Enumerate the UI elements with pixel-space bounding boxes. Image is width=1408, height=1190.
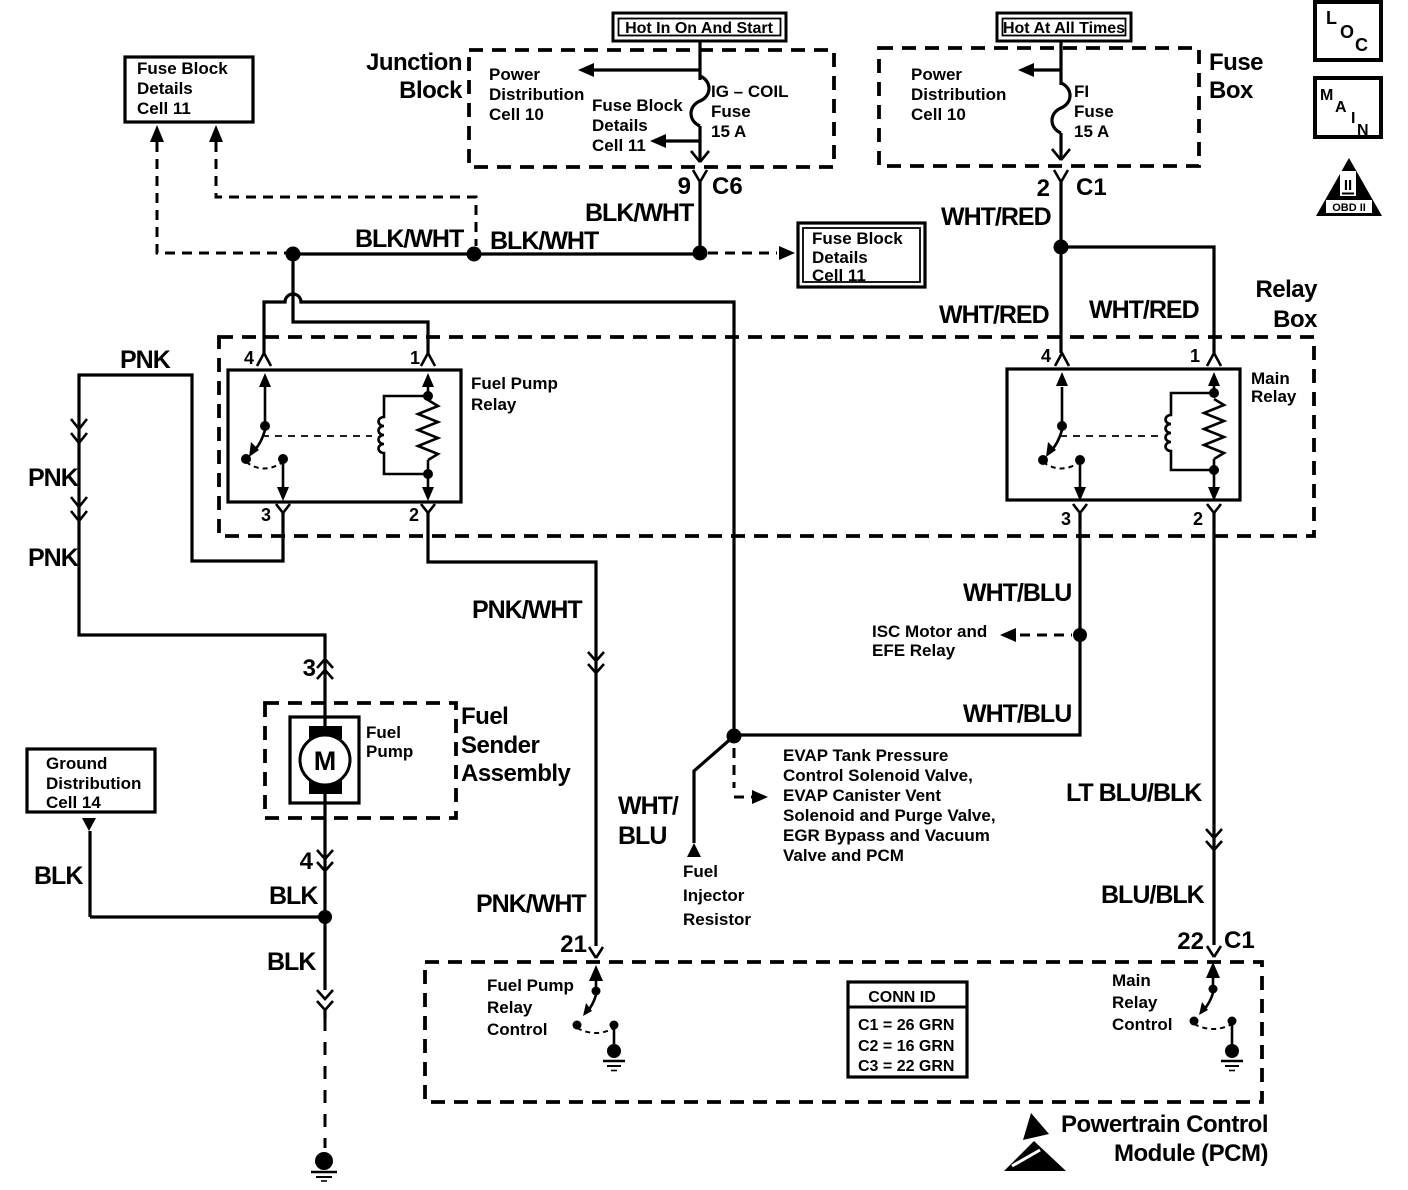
svg-text:Resistor: Resistor <box>683 910 751 929</box>
svg-text:BLK/WHT: BLK/WHT <box>585 199 694 227</box>
svg-text:WHT/RED: WHT/RED <box>939 301 1049 329</box>
svg-text:Relay: Relay <box>1255 276 1318 303</box>
svg-text:Fuel Pump: Fuel Pump <box>471 374 558 393</box>
svg-text:Pump: Pump <box>366 742 413 761</box>
svg-text:Relay: Relay <box>1112 993 1158 1012</box>
svg-text:15 A: 15 A <box>711 122 746 141</box>
svg-text:OBD II: OBD II <box>1332 202 1366 214</box>
svg-text:9: 9 <box>678 173 691 200</box>
svg-text:1: 1 <box>1190 346 1200 366</box>
svg-text:Cell 10: Cell 10 <box>911 105 966 124</box>
svg-text:Block: Block <box>399 77 463 104</box>
svg-text:2: 2 <box>1037 175 1050 202</box>
svg-text:4: 4 <box>300 848 314 875</box>
svg-text:EVAP Canister Vent: EVAP Canister Vent <box>783 786 941 805</box>
svg-text:3: 3 <box>303 655 316 682</box>
svg-text:Fuse: Fuse <box>1209 49 1263 76</box>
svg-text:BLU: BLU <box>618 822 666 850</box>
svg-text:EVAP Tank Pressure: EVAP Tank Pressure <box>783 746 948 765</box>
svg-text:Control: Control <box>487 1020 547 1039</box>
svg-text:C2 = 16 GRN: C2 = 16 GRN <box>858 1038 954 1055</box>
svg-text:C1: C1 <box>1076 174 1107 201</box>
svg-text:L: L <box>1326 8 1337 28</box>
svg-text:PNK: PNK <box>28 544 79 572</box>
svg-text:BLK/WHT: BLK/WHT <box>355 225 464 253</box>
svg-text:Distribution: Distribution <box>489 85 584 104</box>
svg-text:4: 4 <box>1041 346 1051 366</box>
svg-text:WHT/RED: WHT/RED <box>1089 296 1199 324</box>
svg-text:21: 21 <box>560 931 587 958</box>
svg-text:Ground: Ground <box>46 754 107 773</box>
svg-text:BLK: BLK <box>267 948 316 976</box>
svg-text:2: 2 <box>1193 509 1203 529</box>
svg-text:Assembly: Assembly <box>461 760 572 787</box>
svg-text:WHT/RED: WHT/RED <box>941 203 1051 231</box>
svg-text:Hot In On And Start: Hot In On And Start <box>625 20 774 37</box>
svg-text:LT BLU/BLK: LT BLU/BLK <box>1066 779 1202 807</box>
svg-text:Fuse Block: Fuse Block <box>592 96 683 115</box>
svg-text:Injector: Injector <box>683 886 745 905</box>
svg-text:O: O <box>1340 22 1354 42</box>
svg-text:Cell 11: Cell 11 <box>592 136 646 155</box>
svg-text:WHT/BLU: WHT/BLU <box>963 579 1071 607</box>
svg-text:Cell 11: Cell 11 <box>137 99 191 118</box>
svg-text:Fuse Block: Fuse Block <box>137 59 228 78</box>
svg-text:1: 1 <box>410 348 420 368</box>
svg-text:4: 4 <box>244 348 254 368</box>
svg-text:Main: Main <box>1251 369 1290 388</box>
svg-text:Distribution: Distribution <box>911 85 1006 104</box>
svg-text:C1: C1 <box>1224 927 1255 954</box>
svg-text:Fuse Block: Fuse Block <box>812 229 903 248</box>
svg-text:EGR Bypass and Vacuum: EGR Bypass and Vacuum <box>783 826 990 845</box>
svg-text:PNK/WHT: PNK/WHT <box>476 890 586 918</box>
svg-text:N: N <box>1357 122 1369 139</box>
svg-text:Fuel: Fuel <box>683 862 718 881</box>
svg-text:Power: Power <box>489 65 540 84</box>
svg-text:PNK/WHT: PNK/WHT <box>472 596 582 624</box>
svg-text:Cell 11: Cell 11 <box>812 266 866 285</box>
svg-text:C: C <box>1355 35 1368 55</box>
svg-text:Solenoid and Purge Valve,: Solenoid and Purge Valve, <box>783 806 996 825</box>
svg-text:Relay: Relay <box>1251 387 1297 406</box>
svg-text:BLK/WHT: BLK/WHT <box>490 227 599 255</box>
svg-text:PNK: PNK <box>28 464 79 492</box>
svg-text:IG – COIL: IG – COIL <box>711 82 788 101</box>
svg-text:Control: Control <box>1112 1015 1172 1034</box>
svg-text:Module (PCM): Module (PCM) <box>1114 1140 1268 1167</box>
svg-text:C1 = 26 GRN: C1 = 26 GRN <box>858 1017 954 1034</box>
svg-text:Details: Details <box>137 79 193 98</box>
svg-text:C3 = 22 GRN: C3 = 22 GRN <box>858 1058 954 1075</box>
svg-text:Fuse: Fuse <box>711 102 751 121</box>
svg-text:Valve and PCM: Valve and PCM <box>783 846 904 865</box>
svg-text:II: II <box>1344 177 1352 194</box>
svg-text:CONN ID: CONN ID <box>868 989 936 1006</box>
svg-text:Cell 10: Cell 10 <box>489 105 544 124</box>
svg-text:Box: Box <box>1273 306 1318 333</box>
svg-text:Hot At All Times: Hot At All Times <box>1003 20 1125 37</box>
svg-text:Powertrain Control: Powertrain Control <box>1061 1111 1268 1138</box>
svg-text:Main: Main <box>1112 971 1151 990</box>
svg-text:2: 2 <box>409 505 419 525</box>
svg-text:Details: Details <box>812 248 868 267</box>
svg-text:FI: FI <box>1074 82 1089 101</box>
svg-text:15 A: 15 A <box>1074 122 1109 141</box>
svg-text:PNK: PNK <box>120 346 171 374</box>
svg-text:22: 22 <box>1177 928 1204 955</box>
svg-text:3: 3 <box>1061 509 1071 529</box>
svg-text:ISC Motor and: ISC Motor and <box>872 622 987 641</box>
svg-text:Relay: Relay <box>487 998 533 1017</box>
svg-text:Distribution: Distribution <box>46 774 141 793</box>
svg-text:Cell 14: Cell 14 <box>46 793 101 812</box>
svg-text:WHT/: WHT/ <box>618 792 679 820</box>
svg-text:A: A <box>1335 99 1347 116</box>
svg-text:BLK: BLK <box>269 882 318 910</box>
svg-text:Fuel: Fuel <box>366 723 401 742</box>
svg-text:EFE Relay: EFE Relay <box>872 641 956 660</box>
svg-text:Box: Box <box>1209 77 1254 104</box>
svg-text:Details: Details <box>592 116 648 135</box>
svg-text:Power: Power <box>911 65 962 84</box>
svg-text:Sender: Sender <box>461 732 540 759</box>
svg-text:I: I <box>1351 110 1355 127</box>
svg-text:M: M <box>1320 87 1333 104</box>
svg-text:Fuse: Fuse <box>1074 102 1114 121</box>
svg-text:Junction: Junction <box>366 49 462 76</box>
svg-text:Fuel: Fuel <box>461 703 508 730</box>
svg-text:Relay: Relay <box>471 395 517 414</box>
svg-text:M: M <box>314 746 337 776</box>
svg-text:WHT/BLU: WHT/BLU <box>963 700 1071 728</box>
svg-text:BLK: BLK <box>34 862 83 890</box>
svg-text:BLU/BLK: BLU/BLK <box>1101 881 1205 909</box>
svg-text:Control Solenoid Valve,: Control Solenoid Valve, <box>783 766 973 785</box>
svg-text:Fuel Pump: Fuel Pump <box>487 976 574 995</box>
svg-text:C6: C6 <box>712 173 743 200</box>
svg-text:3: 3 <box>261 505 271 525</box>
